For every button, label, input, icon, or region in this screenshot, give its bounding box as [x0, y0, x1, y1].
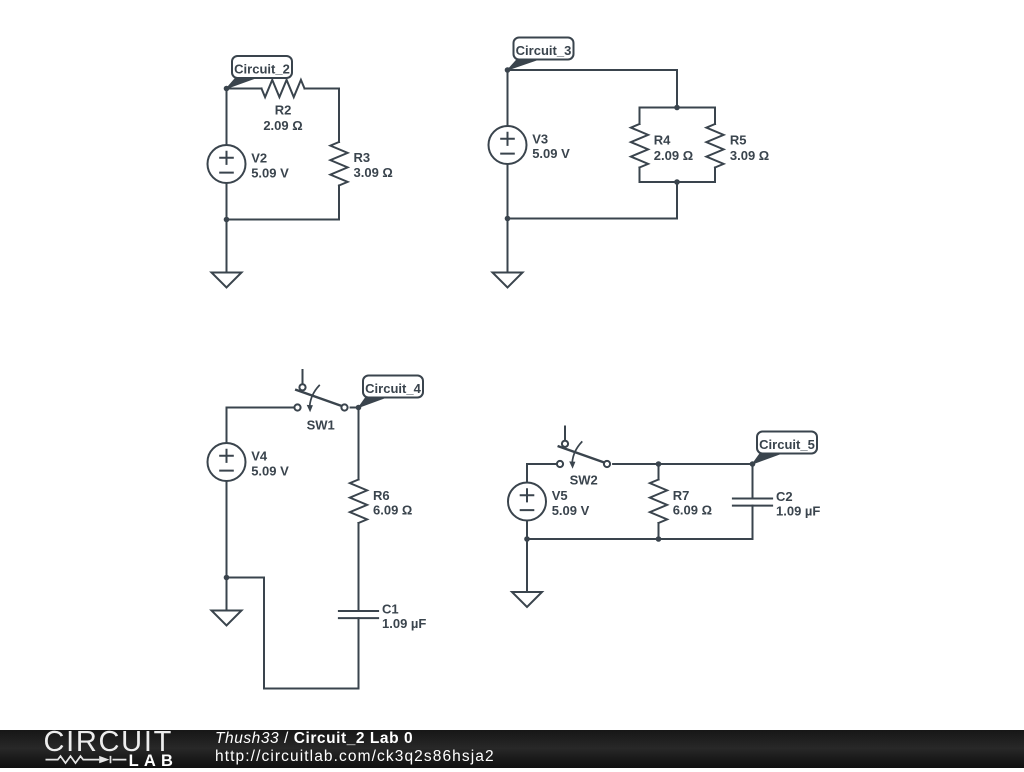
- svg-text:1.09 µF: 1.09 µF: [776, 504, 820, 519]
- svg-text:C2: C2: [776, 489, 793, 504]
- svg-text:V4: V4: [251, 449, 268, 464]
- svg-text:Circuit_2: Circuit_2: [234, 61, 290, 76]
- svg-text:5.09 V: 5.09 V: [251, 464, 289, 479]
- svg-text:Circuit_5: Circuit_5: [759, 437, 815, 452]
- svg-text:R3: R3: [354, 150, 371, 165]
- svg-text:Circuit_3: Circuit_3: [516, 43, 572, 58]
- svg-text:R2: R2: [275, 103, 292, 118]
- svg-text:V3: V3: [532, 131, 548, 146]
- svg-text:V5: V5: [552, 488, 568, 503]
- svg-text:SW1: SW1: [307, 418, 335, 433]
- svg-text:1.09 µF: 1.09 µF: [382, 616, 426, 631]
- svg-text:SW2: SW2: [570, 473, 598, 488]
- svg-text:R4: R4: [654, 132, 671, 147]
- svg-text:6.09 Ω: 6.09 Ω: [373, 502, 412, 517]
- svg-text:5.09 V: 5.09 V: [532, 146, 570, 161]
- svg-text:V2: V2: [251, 151, 267, 166]
- svg-text:6.09 Ω: 6.09 Ω: [673, 502, 712, 517]
- svg-text:R7: R7: [673, 488, 690, 503]
- svg-text:5.09 V: 5.09 V: [251, 166, 289, 181]
- svg-text:3.09 Ω: 3.09 Ω: [730, 148, 769, 163]
- svg-text:2.09 Ω: 2.09 Ω: [654, 148, 693, 163]
- svg-text:C1: C1: [382, 601, 399, 616]
- svg-text:R5: R5: [730, 132, 747, 147]
- svg-text:5.09 V: 5.09 V: [552, 503, 590, 518]
- svg-text:3.09 Ω: 3.09 Ω: [354, 165, 393, 180]
- svg-text:2.09 Ω: 2.09 Ω: [263, 118, 302, 133]
- svg-text:Circuit_4: Circuit_4: [365, 381, 421, 396]
- svg-text:R6: R6: [373, 488, 390, 503]
